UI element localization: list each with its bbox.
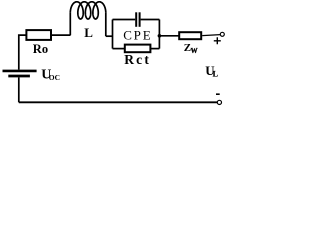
svg-text:L: L — [213, 70, 218, 79]
svg-text:Ro: Ro — [33, 42, 48, 56]
svg-text:Rct: Rct — [124, 52, 151, 67]
svg-text:L: L — [84, 25, 93, 40]
svg-text:CPE: CPE — [123, 27, 152, 42]
svg-text:W: W — [191, 47, 198, 55]
svg-text:OC: OC — [49, 73, 60, 82]
